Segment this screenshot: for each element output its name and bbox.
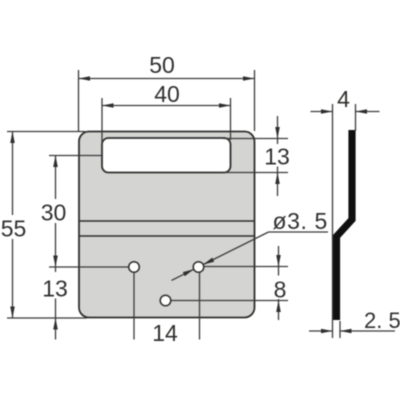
dim 40 arrow right [219, 103, 231, 108]
dim 2.5 line right [340, 330, 395, 332]
dim 13 right extension top (slot top) [223, 138, 288, 140]
dim 4 line right [356, 111, 380, 113]
svg-text:4: 4 [337, 86, 350, 112]
svg-text:2. 5: 2. 5 [364, 308, 400, 333]
leader dia 3.5 opposite arrow [172, 269, 194, 280]
dim 14 extension right (hole H2) [199, 273, 201, 340]
dim 13 right outside arrow above [277, 116, 279, 139]
dim 30 line lower [55, 223, 57, 267]
dim 8 stubs [278, 267, 280, 276]
dim 55 extension bottom [7, 317, 87, 319]
svg-text:50: 50 [149, 52, 175, 78]
dim 55 arrow bottom [10, 307, 15, 319]
dim 13 left line lower stub [55, 299, 57, 319]
dim 8 outside arrow above [278, 246, 280, 267]
dim 8 extension bottom (bottom hole) [172, 300, 289, 302]
dim 13 right extension bottom (slot bottom) [222, 172, 288, 174]
hole H2 right [193, 262, 204, 273]
hole H1 left [129, 262, 140, 273]
dim 8 extension top (hole row right) [205, 266, 289, 268]
svg-text:55: 55 [1, 216, 27, 242]
dim 30 extension bottom (hole row) [49, 266, 129, 268]
svg-text:30: 30 [41, 200, 67, 226]
svg-text:13: 13 [264, 144, 290, 170]
svg-text:8: 8 [274, 277, 287, 303]
dim 2.5 line left [309, 330, 333, 332]
svg-text:ø3. 5: ø3. 5 [273, 208, 328, 234]
dim 50 extension right [254, 70, 256, 131]
dim 13 left line upper stub [55, 267, 57, 272]
dim 55 line lower [12, 239, 14, 318]
dim 55 line upper [12, 132, 14, 216]
dim 14 extension left (hole H1) [133, 273, 135, 340]
hole H3 bottom [160, 295, 171, 306]
dim 50 extension left [78, 70, 80, 131]
leader dia 3.5 diagonal [203, 232, 268, 265]
dim 50 arrow left [79, 76, 91, 81]
dim 13 right stubs [277, 139, 279, 145]
dim 30 arrow top [53, 156, 58, 168]
dim 30 line upper [55, 156, 57, 200]
dim 40 line [102, 105, 231, 107]
dim 30 arrow bottom [53, 256, 58, 268]
dim 13 left outside arrow below [55, 318, 57, 340]
dim 55 arrow top [10, 132, 15, 144]
svg-text:14: 14 [152, 320, 178, 346]
dim 55 extension top [7, 131, 85, 133]
svg-text:40: 40 [154, 81, 180, 107]
dim 8 outside arrow below [278, 301, 280, 321]
slot [102, 138, 231, 173]
dim 2.5 extension right short [339, 321, 341, 338]
leader dia 3.5 underline [269, 231, 329, 233]
dim 30 extension top (slot centerline) [49, 155, 103, 157]
side view profile [337, 130, 353, 320]
bend line 2 [79, 235, 255, 237]
dim 40 extension left [101, 98, 103, 158]
dim 13 right outside arrow below [277, 173, 279, 197]
dim 40 arrow left [102, 103, 114, 108]
dim 4 line left [311, 111, 333, 113]
plate [79, 132, 255, 318]
bend line 1 [79, 220, 255, 222]
svg-text:13: 13 [42, 276, 68, 302]
dim 4 extension right [355, 104, 357, 131]
dim 50 line [79, 78, 255, 80]
dim 50 arrow right [243, 76, 255, 81]
dim 40 extension right [230, 98, 232, 140]
dim 4 extension left (long) [332, 104, 334, 338]
